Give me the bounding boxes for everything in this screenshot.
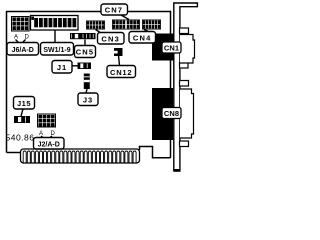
svg-text:CN4: CN4 bbox=[133, 34, 152, 43]
leader CN12 bbox=[119, 56, 120, 66]
jumper J15 (4-pin strip) bbox=[14, 116, 30, 123]
label SW1/1-9 bbox=[41, 43, 74, 56]
svg-text:540.86: 540.86 bbox=[6, 133, 35, 143]
bracket tab 2 bbox=[180, 63, 189, 69]
svg-text:J2/A-D: J2/A-D bbox=[38, 141, 60, 148]
bracket foot bbox=[173, 169, 180, 172]
leader CN5 bbox=[84, 40, 86, 46]
svg-text:CN8: CN8 bbox=[164, 109, 179, 118]
svg-text:CN5: CN5 bbox=[76, 48, 95, 57]
DIP switch SW1 bbox=[31, 16, 79, 31]
connector CN5 (pin strip) bbox=[70, 33, 96, 39]
leader CN7 bbox=[121, 15, 129, 20]
leader J15 bbox=[21, 109, 23, 116]
label CN1 bbox=[162, 42, 181, 53]
svg-text:CN7: CN7 bbox=[105, 6, 124, 15]
svg-text:CN12: CN12 bbox=[110, 68, 132, 77]
connector CN8 (black block) bbox=[152, 88, 173, 140]
label J2/A-D bbox=[34, 138, 65, 150]
CN8 external shell bbox=[180, 89, 194, 138]
pin header (CN7) bbox=[112, 20, 140, 30]
svg-text:CN1: CN1 bbox=[164, 44, 179, 53]
leader CN3 bbox=[96, 30, 102, 34]
label J6/A-D bbox=[7, 43, 39, 56]
jumper block J2 (4x3 grid) bbox=[37, 114, 56, 128]
label J1 bbox=[52, 61, 72, 74]
jumper J1 (3-pin strip) bbox=[78, 63, 92, 70]
jumper block J6 (4x3 grid) bbox=[11, 16, 30, 32]
svg-text:CN3: CN3 bbox=[101, 35, 120, 44]
svg-text:J6/A-D: J6/A-D bbox=[12, 47, 34, 54]
label J3 bbox=[78, 93, 98, 106]
pin header (CN3) bbox=[86, 21, 105, 30]
svg-text:J3: J3 bbox=[83, 96, 93, 105]
leader J2 bbox=[41, 136, 52, 139]
label CN12 bbox=[107, 66, 136, 78]
label CN5 bbox=[75, 46, 96, 58]
leader SW1 bbox=[54, 31, 56, 43]
leader CN4 bbox=[144, 30, 149, 32]
bracket tab 1 bbox=[180, 28, 189, 34]
label J15 bbox=[14, 97, 35, 110]
pin header (CN4) bbox=[142, 20, 161, 30]
leader J3 bbox=[86, 89, 87, 93]
svg-text:SW1/1-9: SW1/1-9 bbox=[43, 47, 70, 54]
label CN3 bbox=[98, 33, 125, 45]
label CN8 bbox=[162, 108, 181, 119]
edge connector comb bbox=[21, 149, 140, 163]
svg-text:J15: J15 bbox=[17, 99, 31, 108]
bracket bbox=[173, 3, 197, 172]
connector CN12 (2-pin) bbox=[114, 48, 123, 56]
connector CN1 (black block) bbox=[152, 34, 174, 61]
bracket tab 4 bbox=[180, 141, 189, 147]
svg-text:J1: J1 bbox=[57, 63, 67, 72]
bracket tab 3 bbox=[180, 81, 189, 87]
label CN7 bbox=[101, 4, 128, 15]
board outline bbox=[7, 12, 171, 158]
leader J6 bbox=[16, 40, 26, 43]
leader J1 bbox=[72, 65, 78, 67]
jumper J3 (vertical strip) bbox=[84, 74, 90, 90]
CN1 external shell bbox=[180, 35, 195, 64]
label CN4 bbox=[129, 32, 156, 44]
bracket bar with top arm bbox=[174, 3, 198, 170]
